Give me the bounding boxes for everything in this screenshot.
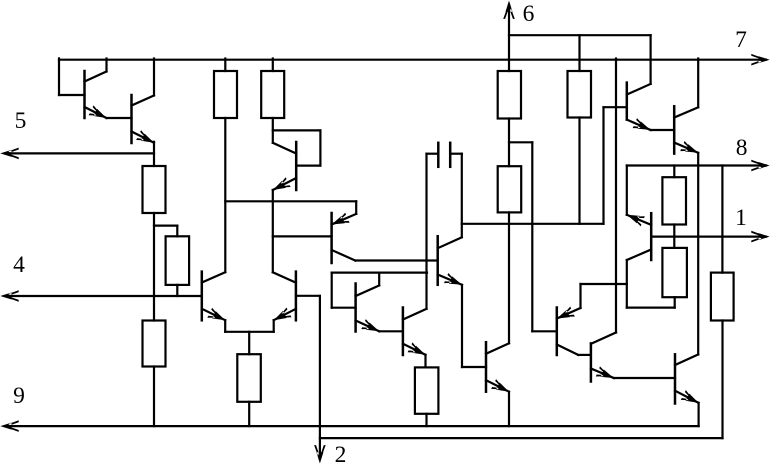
svg-text:4: 4	[13, 252, 25, 278]
svg-text:2: 2	[335, 442, 347, 468]
svg-text:9: 9	[13, 383, 25, 409]
svg-text:7: 7	[735, 27, 747, 53]
svg-text:8: 8	[736, 135, 748, 161]
svg-text:5: 5	[15, 108, 27, 134]
svg-text:1: 1	[735, 205, 747, 231]
svg-text:6: 6	[523, 1, 535, 27]
